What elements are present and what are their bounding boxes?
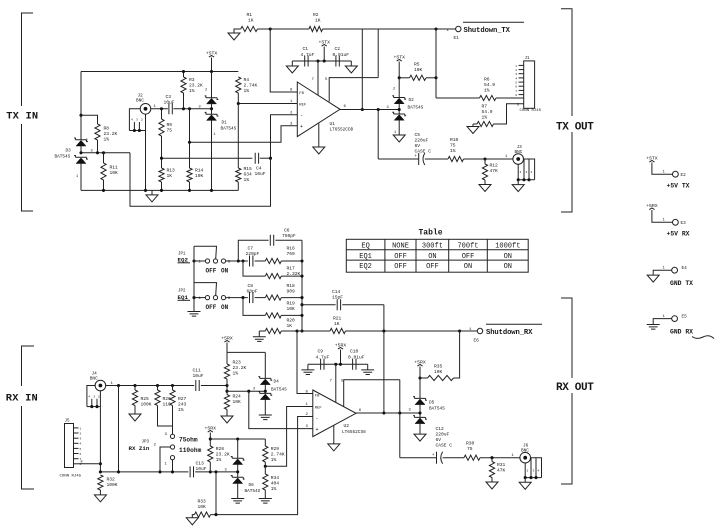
svg-text:CONN RJ45: CONN RJ45 xyxy=(520,109,542,113)
wire U2 pin7 supply xyxy=(335,364,337,402)
capacitor C13 xyxy=(190,466,193,477)
wire U1 pin7 supply xyxy=(317,61,319,95)
resistor R14 xyxy=(189,142,191,168)
svg-text:100K: 100K xyxy=(141,402,152,408)
svg-text:3: 3 xyxy=(136,119,138,122)
svg-text:10uF: 10uF xyxy=(255,171,266,177)
ground for JP1 JP2 xyxy=(188,312,201,317)
junction C6 branch xyxy=(237,259,240,262)
svg-text:10K: 10K xyxy=(110,170,119,176)
svg-text:1K: 1K xyxy=(287,323,293,329)
svg-text:JP2: JP2 xyxy=(178,290,186,294)
svg-text:C7: C7 xyxy=(248,246,254,252)
svg-text:E6: E6 xyxy=(474,339,480,344)
resistor R8 xyxy=(95,124,100,140)
svg-text:5: 5 xyxy=(515,82,517,85)
resistor R6 xyxy=(436,97,480,99)
svg-text:1%: 1% xyxy=(104,137,110,143)
node RX OUT bracket xyxy=(561,298,572,484)
connector J2 BNC xyxy=(140,104,151,115)
svg-text:1K: 1K xyxy=(334,321,340,327)
junction D2 mid output xyxy=(398,108,401,111)
svg-text:3: 3 xyxy=(253,388,255,392)
svg-text:R33: R33 xyxy=(198,499,207,505)
wire R2 to E1 shutdown line xyxy=(323,28,456,30)
resistor R28 xyxy=(209,439,211,446)
resistor R25 xyxy=(134,386,136,391)
svg-text:CASE C: CASE C xyxy=(436,443,453,449)
capacitor C5 220uF xyxy=(418,153,420,165)
junction R5 right xyxy=(434,76,437,79)
junction R23 bottom xyxy=(225,384,228,387)
wire R19 branch vertical xyxy=(243,298,265,316)
svg-text:C8: C8 xyxy=(248,283,254,289)
ground for J6 xyxy=(524,478,526,483)
junction JP2 pin1 xyxy=(192,296,195,299)
resistor R10 xyxy=(448,156,464,161)
svg-text:TX OUT: TX OUT xyxy=(556,122,594,134)
svg-text:3: 3 xyxy=(526,171,528,174)
svg-text:REF: REF xyxy=(299,103,307,107)
wire jumper ground column xyxy=(193,246,195,311)
svg-text:D2: D2 xyxy=(409,98,415,103)
resistor R30 xyxy=(464,455,480,460)
svg-text:R3: R3 xyxy=(189,77,195,83)
svg-text:R4: R4 xyxy=(244,77,250,83)
svg-text:C6: C6 xyxy=(284,228,290,234)
junction rail R11 xyxy=(102,189,105,192)
ground for D2 xyxy=(393,135,405,142)
junction output C5 drop xyxy=(377,108,380,111)
wire U1 pin5 to shutdown line xyxy=(329,78,378,102)
wire U2 output xyxy=(356,412,420,414)
svg-text:R2: R2 xyxy=(313,12,319,18)
wire shutdown RX to E6 xyxy=(460,330,478,332)
svg-text:3: 3 xyxy=(533,469,535,472)
resistor R24 xyxy=(224,395,229,410)
svg-text:R23: R23 xyxy=(233,360,242,366)
junction bus C14 xyxy=(300,303,303,306)
wire C13 line xyxy=(100,471,188,473)
junction D6 mid xyxy=(236,470,239,473)
wire U1 pin8 from R1/R2 junction xyxy=(270,29,297,92)
ground for R20 xyxy=(258,331,260,337)
svg-text:1%: 1% xyxy=(271,457,277,463)
wire TX bottom ground rail xyxy=(81,189,238,191)
svg-text:R27: R27 xyxy=(178,396,187,402)
svg-text:OFF: OFF xyxy=(462,253,475,261)
junction R26 top xyxy=(156,384,159,387)
svg-text:769: 769 xyxy=(287,251,296,257)
svg-text:15pF: 15pF xyxy=(332,295,343,301)
svg-text:75: 75 xyxy=(167,128,173,134)
wire U2 feedback bus xyxy=(383,305,385,413)
svg-text:R12: R12 xyxy=(490,163,499,169)
svg-text:BAT54S: BAT54S xyxy=(55,155,71,160)
junction J4 comb xyxy=(90,405,93,408)
ground for C10 xyxy=(367,364,369,369)
svg-text:R8: R8 xyxy=(104,126,110,132)
svg-text:NONE: NONE xyxy=(392,242,409,250)
ground for C2 xyxy=(350,61,352,66)
svg-text:EQ: EQ xyxy=(361,242,369,250)
capacitor C11 xyxy=(196,380,199,391)
svg-text:10K: 10K xyxy=(198,504,207,510)
svg-text:-: - xyxy=(316,416,319,422)
node RX IN bracket xyxy=(22,346,35,489)
ground for J3 xyxy=(517,180,519,185)
svg-text:BNC: BNC xyxy=(90,377,98,382)
wire scan mark xyxy=(692,336,714,339)
pin E6 circle xyxy=(477,328,482,333)
svg-text:GND TX: GND TX xyxy=(670,280,693,287)
svg-text:10K: 10K xyxy=(287,306,296,312)
junction D5 mid xyxy=(418,411,421,414)
svg-text:R17: R17 xyxy=(287,266,296,272)
wire J2 pin1 line xyxy=(151,108,168,110)
capacitor C1 xyxy=(305,56,308,67)
diode D2 BAT54S xyxy=(398,78,400,98)
svg-text:4.7uF: 4.7uF xyxy=(316,354,330,360)
svg-text:10uF: 10uF xyxy=(164,99,175,105)
wire R17 branch vertical xyxy=(243,261,265,276)
svg-text:2: 2 xyxy=(515,69,517,72)
junction rail D1 xyxy=(210,189,213,192)
connector J1 CONN RJ45 xyxy=(524,61,535,108)
wire TX left bias column xyxy=(80,72,82,140)
resistor R1 xyxy=(241,26,258,31)
resistor R2 xyxy=(309,26,323,31)
ground for C9 xyxy=(307,364,309,369)
svg-text:E2: E2 xyxy=(681,173,687,178)
ground for C1 xyxy=(291,61,293,66)
svg-text:3: 3 xyxy=(387,106,389,110)
wire R1 to R2 with feedback/shutdown line xyxy=(257,28,309,30)
svg-text:C10: C10 xyxy=(350,349,359,355)
junction bus R18 xyxy=(300,296,303,299)
junction R35 left xyxy=(418,376,421,379)
wire R29 bottom to pin1 xyxy=(265,407,313,467)
junction D1 top xyxy=(210,70,213,73)
resistor R3 xyxy=(183,72,185,78)
svg-text:0.01uF: 0.01uF xyxy=(333,52,350,58)
svg-text:R18: R18 xyxy=(287,283,296,289)
junction R11 top xyxy=(102,151,105,154)
svg-text:OFF: OFF xyxy=(394,253,407,261)
junction R25 top xyxy=(133,384,136,387)
capacitor C6 xyxy=(270,235,273,246)
junction D1 mid xyxy=(210,107,213,110)
svg-text:FB: FB xyxy=(315,395,320,399)
wire D4 node line xyxy=(227,390,265,392)
svg-text:BNC: BNC xyxy=(515,150,523,155)
junction bus shutdown line xyxy=(382,329,385,332)
svg-text:RX IN: RX IN xyxy=(6,392,38,404)
svg-text:D3: D3 xyxy=(66,149,72,154)
svg-text:54.9: 54.9 xyxy=(482,109,493,115)
svg-text:4: 4 xyxy=(515,77,517,80)
svg-text:404: 404 xyxy=(271,481,280,487)
junction R8 node xyxy=(96,151,99,154)
svg-text:OFF: OFF xyxy=(426,263,439,271)
pin E5 circle xyxy=(672,316,678,322)
node Table grid xyxy=(346,239,528,272)
capacitor C8 xyxy=(250,292,253,303)
svg-text:R20: R20 xyxy=(287,318,296,324)
svg-text:8: 8 xyxy=(515,94,517,97)
svg-text:R1: R1 xyxy=(247,12,253,18)
junction rail R13 xyxy=(160,189,163,192)
junction C13 drop xyxy=(117,470,120,473)
wire D3 node line xyxy=(81,152,130,154)
svg-text:2.74K: 2.74K xyxy=(271,452,285,458)
svg-text:23.2K: 23.2K xyxy=(104,131,118,137)
svg-text:CONN RJ45: CONN RJ45 xyxy=(60,474,82,478)
resistor R23 xyxy=(226,352,228,364)
svg-text:6: 6 xyxy=(517,103,519,107)
wire C9 C10 supply rail xyxy=(308,363,368,365)
ground for D5 xyxy=(414,434,426,441)
capacitor C10 xyxy=(353,359,356,370)
svg-text:3: 3 xyxy=(409,409,411,413)
wire J2 shield to ground rail xyxy=(145,131,147,191)
svg-text:C5: C5 xyxy=(415,132,421,138)
svg-text:C9: C9 xyxy=(318,349,324,355)
svg-text:TX IN: TX IN xyxy=(6,111,38,123)
junction R12 top xyxy=(483,157,486,160)
pin E3 circle xyxy=(673,219,679,225)
junction bus bottom xyxy=(300,329,303,332)
capacitor C14 xyxy=(302,304,336,306)
svg-text:220uF: 220uF xyxy=(436,432,450,438)
svg-text:E5: E5 xyxy=(682,314,688,319)
wire C4 row xyxy=(162,157,253,159)
ground TX rail xyxy=(151,190,153,194)
ground GND TX xyxy=(647,275,659,282)
wire R23 R24 node xyxy=(226,386,228,392)
svg-text:+: + xyxy=(300,124,303,130)
svg-text:3: 3 xyxy=(515,73,517,76)
svg-text:+: + xyxy=(432,453,435,458)
wire J4 pin1 line xyxy=(106,385,195,387)
svg-text:2: 2 xyxy=(393,88,395,92)
junction R8 top xyxy=(79,114,82,117)
connector J6 BNC xyxy=(520,452,531,463)
wire BNC center to C13 line xyxy=(118,386,120,472)
resistor R35 xyxy=(420,377,428,379)
wire E4 to ground xyxy=(653,270,672,275)
resistor R33 xyxy=(195,512,211,517)
resistor R19 xyxy=(265,313,281,318)
wire J4 shield to RJ45 pin8 xyxy=(99,407,101,472)
connector J4 BNC xyxy=(95,380,106,391)
svg-text:1: 1 xyxy=(80,427,82,430)
junction U2 pin8 top xyxy=(295,329,298,332)
svg-text:R15: R15 xyxy=(244,166,253,172)
svg-text:2: 2 xyxy=(527,469,529,472)
svg-text:634: 634 xyxy=(244,172,253,178)
svg-text:C14: C14 xyxy=(332,289,341,295)
junction pin8 drop xyxy=(269,27,272,30)
svg-text:Shutdown_RX: Shutdown_RX xyxy=(486,329,533,337)
svg-text:ON: ON xyxy=(504,253,512,261)
wire J3 shield comb xyxy=(524,159,535,180)
svg-text:BAT54S: BAT54S xyxy=(245,489,261,494)
svg-text:OFF: OFF xyxy=(394,263,407,271)
junction bus R19 xyxy=(300,314,303,317)
resistor R7 xyxy=(473,123,477,125)
ground for D4 xyxy=(259,415,272,420)
svg-text:E4: E4 xyxy=(682,266,688,271)
svg-text:3: 3 xyxy=(225,468,227,472)
svg-text:100K: 100K xyxy=(107,482,118,488)
jumper JP3 RX Zin xyxy=(170,434,174,438)
ground for R32 xyxy=(94,495,106,502)
wire J5 pin8 line xyxy=(79,463,101,465)
svg-text:6V: 6V xyxy=(415,143,421,149)
svg-text:750pF: 750pF xyxy=(282,233,296,239)
svg-text:RX OUT: RX OUT xyxy=(556,382,594,394)
resistor R21 xyxy=(330,328,346,333)
svg-text:75: 75 xyxy=(467,446,473,452)
wire JP3 pin1 to C13 line xyxy=(172,460,174,472)
wire R8 branch xyxy=(81,115,98,124)
wire JP3 pin2 xyxy=(160,447,170,472)
ground for R1 xyxy=(234,29,241,33)
svg-text:4: 4 xyxy=(538,469,540,472)
junction R19 branch xyxy=(241,296,244,299)
wire R28 D6 R29 supply rail xyxy=(210,438,265,440)
svg-text:OFF: OFF xyxy=(206,304,217,311)
junction feedback at output xyxy=(361,108,364,111)
svg-text:23.2K: 23.2K xyxy=(233,365,247,371)
junction pin3 drop RX xyxy=(247,390,250,393)
resistor R15 xyxy=(237,104,239,169)
junction R27 top xyxy=(171,384,174,387)
svg-text:4: 4 xyxy=(131,119,133,122)
wire U1 output xyxy=(340,109,399,111)
junction JP3 pin2 joint xyxy=(158,470,161,473)
wire feedback vertical to U1 output xyxy=(361,29,363,110)
svg-text:C13: C13 xyxy=(196,461,205,467)
junction R5 left xyxy=(398,76,401,79)
capacitor C4 xyxy=(255,153,258,164)
svg-text:0.01uF: 0.01uF xyxy=(348,354,365,360)
junction R28 top xyxy=(209,437,212,440)
svg-text:75: 75 xyxy=(450,143,456,149)
junction R4 bottom xyxy=(237,102,240,105)
svg-text:C4: C4 xyxy=(256,166,262,172)
pin E4 circle xyxy=(672,267,678,273)
wire C12 drop xyxy=(399,380,401,458)
svg-text:3: 3 xyxy=(199,105,201,109)
svg-text:CASE C: CASE C xyxy=(415,149,432,155)
resistor R31 xyxy=(491,458,493,462)
svg-text:110ohm: 110ohm xyxy=(179,447,202,454)
svg-text:10K: 10K xyxy=(434,369,443,375)
wire R5 to shutdown xyxy=(435,29,437,98)
svg-text:54.9: 54.9 xyxy=(484,82,495,88)
wire JP1 pin3 to C7 xyxy=(226,260,248,262)
wire U2 pin3 line xyxy=(249,391,313,428)
capacitor C7 xyxy=(250,256,253,267)
wire U1 pin5 SHDN vertical xyxy=(377,29,379,78)
svg-text:LT6552CS8: LT6552CS8 xyxy=(342,430,366,435)
svg-text:2: 2 xyxy=(520,171,522,174)
wire U1 pin2 from C4 xyxy=(271,115,298,158)
svg-text:47K: 47K xyxy=(497,468,506,474)
svg-text:BAT54S: BAT54S xyxy=(271,388,287,393)
svg-text:1K: 1K xyxy=(315,18,321,24)
svg-text:E3: E3 xyxy=(681,221,687,226)
svg-text:6: 6 xyxy=(80,453,82,456)
junction D6 top xyxy=(236,437,239,440)
svg-text:3: 3 xyxy=(93,395,95,398)
svg-text:300ft: 300ft xyxy=(422,242,443,250)
diode D5 BAT54S xyxy=(419,378,421,398)
wire U2 pin5 to output xyxy=(344,380,400,407)
svg-text:BNC: BNC xyxy=(136,99,144,104)
junction bus R17 xyxy=(300,275,303,278)
resistor R29 xyxy=(264,439,266,446)
wire U2 pin8 feedback xyxy=(297,331,313,394)
node TX OUT bracket xyxy=(561,9,572,212)
svg-text:1%: 1% xyxy=(271,486,277,492)
svg-text:1%: 1% xyxy=(484,88,490,94)
svg-text:D6: D6 xyxy=(249,483,255,488)
connector J5 CONN RJ45 xyxy=(65,424,74,468)
svg-text:R11: R11 xyxy=(110,165,119,171)
svg-text:2: 2 xyxy=(80,432,82,435)
ground for U2 xyxy=(333,425,335,444)
svg-text:R10: R10 xyxy=(450,137,459,143)
resistor R17 xyxy=(265,274,281,279)
ground for R7 xyxy=(472,124,474,126)
ground for R34 xyxy=(259,499,272,504)
svg-text:47K: 47K xyxy=(490,168,499,174)
resistor R34 xyxy=(264,466,266,474)
resistor R9 xyxy=(161,109,163,119)
svg-text:1%: 1% xyxy=(216,457,222,463)
svg-text:ON: ON xyxy=(504,263,512,271)
svg-text:ON: ON xyxy=(221,268,229,275)
svg-text:+5V RX: +5V RX xyxy=(667,231,690,238)
ground for R12 xyxy=(479,185,491,192)
svg-text:-: - xyxy=(300,113,303,119)
wire EQ bus xyxy=(301,240,303,331)
wire pin3 line xyxy=(190,109,298,143)
resistor R27 xyxy=(172,386,174,391)
svg-text:FB: FB xyxy=(299,92,304,96)
junction R24 top xyxy=(225,390,228,393)
svg-text:R35: R35 xyxy=(434,364,443,370)
junction R3 top xyxy=(182,70,185,73)
junction U2 pin7 xyxy=(334,363,337,366)
svg-text:R24: R24 xyxy=(233,394,242,400)
wire C5 row xyxy=(378,158,419,160)
junction C4 right pin2 xyxy=(269,157,272,160)
svg-text:JP3: JP3 xyxy=(142,441,150,445)
junction R29 R34 node xyxy=(264,465,267,468)
resistor R13 xyxy=(161,158,163,168)
svg-text:8: 8 xyxy=(81,460,83,464)
svg-text:R9: R9 xyxy=(167,122,173,128)
svg-text:68pF: 68pF xyxy=(247,289,258,295)
svg-text:2: 2 xyxy=(98,395,100,398)
junction D4 mid xyxy=(264,390,267,393)
wire divider to pin2 net xyxy=(130,153,271,207)
wire J6 shield comb xyxy=(531,458,542,478)
